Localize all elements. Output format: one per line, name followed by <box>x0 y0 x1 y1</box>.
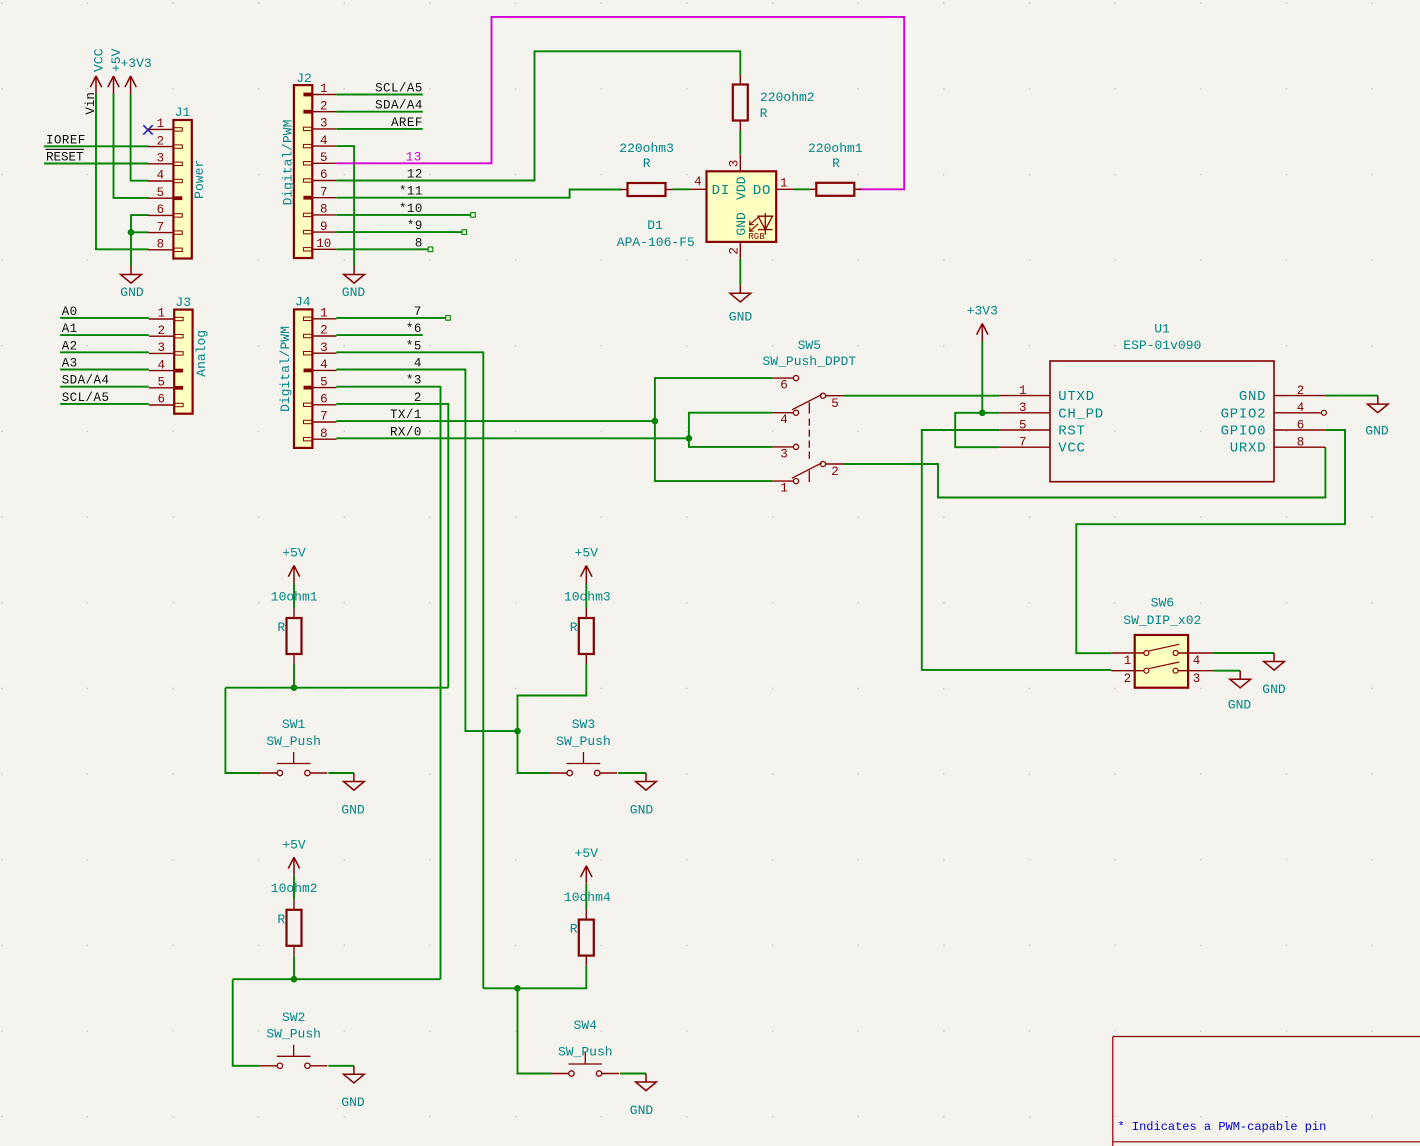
svg-text:R: R <box>760 106 768 121</box>
svg-text:3: 3 <box>727 160 741 168</box>
svg-text:3: 3 <box>780 447 788 461</box>
svg-text:SW1: SW1 <box>282 717 306 732</box>
wire +5V to 10ohm4 <box>585 884 587 910</box>
wire U1 GPIO0 to SW6 pin 1 <box>1076 430 1345 653</box>
net label TX/1 <box>390 408 422 422</box>
switch SW6 SW_DIP_x02 <box>1111 596 1213 688</box>
svg-text:SW3: SW3 <box>572 717 595 732</box>
no-connect X on J1 pin 1 <box>143 125 152 134</box>
svg-text:5: 5 <box>157 186 165 200</box>
svg-text:7: 7 <box>1019 436 1027 450</box>
wire 220ohm2 to D1 VDD <box>739 131 741 155</box>
resistor 220ohm1 <box>808 141 863 196</box>
net label *9 <box>407 219 423 233</box>
net label SDA/A4 <box>62 374 110 388</box>
wire net *11 J2 pin 7 to 220ohm3 <box>336 190 621 198</box>
wire D1 GND pin to ground <box>739 259 741 285</box>
svg-text:2: 2 <box>414 391 422 405</box>
svg-text:GND: GND <box>1239 389 1266 405</box>
svg-text:R: R <box>570 922 578 937</box>
svg-text:+3V3: +3V3 <box>120 56 151 71</box>
wire J2 pin 3 net AREF <box>336 128 423 130</box>
svg-text:Analog: Analog <box>194 330 209 377</box>
wire net 12 J2 pin 6 to 220ohm2 <box>336 51 740 180</box>
wire J4 pin 5 net *3 <box>336 387 440 980</box>
svg-text:3: 3 <box>157 152 165 166</box>
wire RESET to J1 pin 3 <box>44 163 149 165</box>
svg-text:VCC: VCC <box>91 48 106 72</box>
D1 internal LED symbol with RGB marking <box>748 213 772 242</box>
resistor 220ohm3 <box>619 141 674 196</box>
svg-text:GND: GND <box>341 802 365 817</box>
svg-text:6: 6 <box>157 203 165 217</box>
svg-text:IOREF: IOREF <box>46 133 86 147</box>
D1 pin name VDD (rotated) <box>734 176 749 200</box>
svg-text:SDA/A4: SDA/A4 <box>375 99 423 113</box>
net label *5 <box>406 339 422 353</box>
junction SW4 pull-up node <box>514 985 521 992</box>
svg-text:*10: *10 <box>399 202 423 216</box>
svg-text:R: R <box>277 912 285 927</box>
power flag +5V (SW4) <box>575 846 599 884</box>
svg-text:8: 8 <box>157 238 165 252</box>
svg-text:ESP-01v090: ESP-01v090 <box>1123 338 1201 353</box>
svg-text:SW_Push: SW_Push <box>558 1044 613 1059</box>
wire net *9 J2 pin 9 (dangling) <box>336 230 466 235</box>
switch SW2 SW_Push <box>260 1010 328 1069</box>
svg-text:SW4: SW4 <box>574 1018 598 1033</box>
net label RESET (with overline) <box>46 149 85 164</box>
svg-text:GND: GND <box>1365 424 1389 439</box>
svg-text:SCL/A5: SCL/A5 <box>62 391 110 405</box>
svg-text:RESET: RESET <box>46 151 84 165</box>
junction SW3 pull-up node <box>514 728 521 735</box>
note text: * Indicates a PWM-capable pin <box>1118 1120 1327 1134</box>
svg-text:SW_DIP_x02: SW_DIP_x02 <box>1123 613 1201 628</box>
wire J4 pin 8 net RX/0 to SW5 <box>336 437 689 439</box>
net label 7 <box>414 305 422 319</box>
net label 13 (magenta) <box>406 150 422 164</box>
D1 value label APA-106-F5 <box>617 235 695 250</box>
svg-text:2: 2 <box>1124 672 1132 686</box>
D1 pin number 3 <box>727 160 741 168</box>
wire J1 pin 6 to ground bus <box>131 215 149 266</box>
wire J4 pin 1 net 7 (dangling) <box>336 316 450 321</box>
net label *3 <box>406 374 422 388</box>
svg-text:J3: J3 <box>175 295 191 310</box>
svg-text:GND: GND <box>630 1103 654 1118</box>
svg-text:4: 4 <box>320 134 328 148</box>
resistor 10ohm3 <box>564 589 611 664</box>
svg-text:1: 1 <box>320 307 328 321</box>
wire J3 pin 5 net SDA/A4 <box>60 386 149 388</box>
wire U1 RST to SW6 pin 2 <box>922 430 1111 670</box>
net label *11 <box>399 185 423 199</box>
svg-text:GND: GND <box>342 285 366 300</box>
net label SCL/A5 <box>375 82 423 96</box>
svg-text:4: 4 <box>157 169 165 183</box>
ground at SW2 <box>341 1066 365 1110</box>
power flag +5V (SW1) <box>282 546 306 584</box>
svg-text:R: R <box>277 620 285 635</box>
wire U1 GND pin to ground <box>1325 395 1377 397</box>
svg-text:+5V: +5V <box>282 546 306 561</box>
switch SW4 SW_Push <box>552 1018 620 1076</box>
net label A1 <box>62 322 78 336</box>
svg-text:2: 2 <box>727 247 741 255</box>
wire SW5 pin 2 to U1 URXD <box>844 447 1326 497</box>
svg-text:1: 1 <box>780 482 788 496</box>
wire D1 DO to 220ohm1 <box>793 188 809 190</box>
svg-text:220ohm1: 220ohm1 <box>808 141 863 156</box>
switch SW1 SW_Push <box>260 717 328 776</box>
svg-text:GPIO2: GPIO2 <box>1221 406 1267 422</box>
svg-text:220ohm2: 220ohm2 <box>760 90 815 105</box>
svg-text:SW_Push: SW_Push <box>266 734 321 749</box>
junction J1 pins 6-7 ground <box>128 229 135 236</box>
svg-text:5: 5 <box>320 151 328 165</box>
svg-text:GND: GND <box>1262 682 1286 697</box>
svg-text:D1: D1 <box>647 218 663 233</box>
svg-text:+3V3: +3V3 <box>967 304 998 319</box>
wire CH_PD to VCC link <box>955 413 999 447</box>
svg-text:*5: *5 <box>406 339 422 353</box>
wire J4 pin 6 net 2 <box>336 404 448 688</box>
wire J4 pin 4 net 4 <box>336 370 515 732</box>
svg-text:13: 13 <box>406 150 422 164</box>
svg-text:*3: *3 <box>406 374 422 388</box>
svg-text:9: 9 <box>320 220 328 234</box>
svg-text:7: 7 <box>320 185 328 199</box>
power flag +3V3 <box>120 56 151 94</box>
svg-text:10ohm2: 10ohm2 <box>271 881 318 896</box>
svg-text:GND: GND <box>1228 698 1252 713</box>
wire SW1 to ground <box>328 772 354 774</box>
svg-text:RGB: RGB <box>748 232 765 242</box>
svg-text:GPIO0: GPIO0 <box>1221 424 1267 440</box>
svg-text:8: 8 <box>320 203 328 217</box>
svg-text:APA-106-F5: APA-106-F5 <box>617 235 695 250</box>
svg-text:GND: GND <box>734 212 749 236</box>
svg-text:8: 8 <box>415 236 423 250</box>
net label 12 <box>407 168 423 182</box>
wire +3V3 vertical to J1 pin 4 <box>131 94 149 181</box>
power flag +5V <box>108 48 124 94</box>
svg-text:*11: *11 <box>399 185 423 199</box>
svg-text:7: 7 <box>157 220 165 234</box>
svg-text:J4: J4 <box>295 294 311 309</box>
connector J2 (Digital/PWM header) <box>281 71 337 258</box>
net label 4 <box>414 357 422 371</box>
svg-text:6: 6 <box>780 379 788 393</box>
wire 10ohm3 to SW3 node <box>518 664 587 773</box>
wire J3 pin 1 net A0 <box>60 317 149 319</box>
wire net 8 J2 pin 10 (dangling) <box>336 247 433 252</box>
svg-text:SW5: SW5 <box>798 338 821 353</box>
wire net 13 (magenta) J2 pin 5 to 220ohm1 <box>336 17 904 189</box>
wire SW6 pin 3 to ground <box>1213 670 1240 672</box>
svg-text:SW_Push_DPDT: SW_Push_DPDT <box>762 354 856 369</box>
wire 10ohm1 to SW1 node <box>293 664 295 688</box>
svg-text:3: 3 <box>1193 672 1201 686</box>
svg-text:10ohm3: 10ohm3 <box>564 589 611 604</box>
resistor 220ohm2 <box>733 75 815 131</box>
svg-text:220ohm3: 220ohm3 <box>619 141 674 156</box>
svg-text:4: 4 <box>157 358 165 372</box>
svg-text:5: 5 <box>1019 418 1027 432</box>
power flag +5V (SW2) <box>282 837 306 875</box>
wire SW3 to ground <box>618 772 646 774</box>
wire +5V to 10ohm2 <box>293 875 295 900</box>
svg-text:10: 10 <box>316 237 331 251</box>
svg-text:GND: GND <box>120 285 144 300</box>
resistor 10ohm2 <box>271 881 318 956</box>
net label RX/0 <box>390 425 422 439</box>
svg-text:5: 5 <box>320 375 328 389</box>
svg-text:AREF: AREF <box>391 116 423 130</box>
svg-text:+5V: +5V <box>575 546 599 561</box>
svg-text:4: 4 <box>1297 401 1305 415</box>
wire SW6 pin 4 to ground <box>1213 652 1274 654</box>
svg-text:2: 2 <box>320 99 328 113</box>
switch SW5 SW_Push_DPDT <box>762 338 856 484</box>
junction +3V3 CH_PD <box>979 410 986 417</box>
wire +5V vertical to J1 pin 5 <box>114 94 149 198</box>
wire J4 pin 2 net *6 <box>336 334 423 336</box>
wire SW1 node down to SW1 pin <box>225 688 260 773</box>
svg-text:10ohm4: 10ohm4 <box>564 890 611 905</box>
svg-text:1: 1 <box>780 177 788 191</box>
wire net *5 to SW4 node <box>483 987 517 989</box>
wire J2 pin 2 net SDA/A4 <box>336 111 423 113</box>
svg-text:J1: J1 <box>175 105 191 120</box>
wire IOREF to J1 pin 2 <box>44 145 149 147</box>
D1 reference label <box>647 218 663 233</box>
ground at SW4 <box>630 1074 657 1118</box>
svg-text:3: 3 <box>1019 401 1027 415</box>
svg-text:URXD: URXD <box>1230 441 1266 457</box>
svg-text:3: 3 <box>320 117 328 131</box>
wire SW2 node to net *3 <box>233 978 441 980</box>
svg-text:1: 1 <box>1019 384 1027 398</box>
svg-text:SW_Push: SW_Push <box>556 734 611 749</box>
svg-text:UTXD: UTXD <box>1058 389 1094 405</box>
wire J3 pin 6 net SCL/A5 <box>60 403 149 405</box>
wire VCC vertical to J1 pin 8 <box>96 94 149 249</box>
wire SW2 to ground <box>328 1065 354 1067</box>
svg-text:5: 5 <box>831 397 839 411</box>
svg-text:6: 6 <box>320 393 328 407</box>
svg-text:10ohm1: 10ohm1 <box>271 589 318 604</box>
ground at SW6 pin 4 <box>1262 653 1286 697</box>
wire 10ohm4 to SW4 node <box>518 966 587 1074</box>
net label *10 <box>399 202 423 216</box>
svg-text:GND: GND <box>341 1095 365 1110</box>
wire J4 pin 7 net TX/1 to SW5 <box>336 420 655 422</box>
svg-text:1: 1 <box>1124 654 1132 668</box>
SW5 pin numbers <box>780 379 839 496</box>
svg-text:4: 4 <box>694 175 702 189</box>
wire 220ohm3 to D1 DI <box>673 188 690 190</box>
power flag VCC <box>90 48 106 94</box>
wire SW5 pin 6 to pin 1 (left loop) <box>655 378 773 481</box>
svg-text:DI: DI <box>712 183 730 199</box>
wire SW5 pin 5 to U1 UTXD <box>844 395 999 397</box>
svg-text:4: 4 <box>780 413 788 427</box>
wire +5V to 10ohm3 <box>585 584 587 609</box>
svg-text:GND: GND <box>630 802 654 817</box>
power flag +5V (SW3) <box>575 546 599 584</box>
net label SDA/A4 <box>375 99 423 113</box>
D1 pin name DI <box>712 183 730 199</box>
svg-text:*9: *9 <box>407 219 423 233</box>
svg-text:8: 8 <box>1297 436 1305 450</box>
svg-text:Digital/PWM: Digital/PWM <box>281 120 296 206</box>
svg-text:2: 2 <box>320 324 328 338</box>
svg-text:4: 4 <box>320 358 328 372</box>
resistor 10ohm4 <box>564 890 611 966</box>
D1 pin number 2 <box>727 247 741 255</box>
svg-text:*6: *6 <box>406 322 422 336</box>
svg-text:+5V: +5V <box>575 846 599 861</box>
svg-text:SCL/A5: SCL/A5 <box>375 82 423 96</box>
junction SW2 pull-up node <box>291 976 298 983</box>
svg-text:VCC: VCC <box>1058 441 1085 457</box>
svg-text:2: 2 <box>1297 384 1305 398</box>
svg-text:U1: U1 <box>1154 322 1170 337</box>
RGB LED D1 APA-106-F5 <box>689 154 793 259</box>
connector J1 (Power header) <box>148 105 207 259</box>
wire SW4 to ground <box>620 1073 646 1075</box>
switch SW3 SW_Push <box>550 717 618 776</box>
svg-text:RST: RST <box>1058 424 1085 440</box>
resistor 10ohm1 <box>271 589 318 664</box>
wire net *10 J2 pin 8 (dangling) <box>336 213 475 218</box>
svg-text:7: 7 <box>414 305 422 319</box>
net label *6 <box>406 322 422 336</box>
wire SW5 pin 4 to pin 3 <box>689 413 773 447</box>
ground below J1 <box>120 266 144 300</box>
connector J4 (Digital/PWM header) <box>278 294 336 448</box>
svg-text:Power: Power <box>192 160 207 199</box>
junction SW1 pull-up node <box>291 684 298 691</box>
net label A2 <box>62 339 78 353</box>
svg-text:VDD: VDD <box>734 176 749 200</box>
svg-text:* Indicates a PWM-capable pin: * Indicates a PWM-capable pin <box>1118 1120 1327 1134</box>
svg-text:Digital/PWM: Digital/PWM <box>278 326 293 412</box>
net label AREF <box>391 116 423 130</box>
wire SW1 node to net 2 <box>225 687 448 689</box>
junction TX/1 at SW5 left loop <box>652 418 659 425</box>
svg-text:A1: A1 <box>62 322 78 336</box>
ground at SW6 pin 3 <box>1228 671 1252 713</box>
ground at SW1 <box>341 773 365 817</box>
wire J2 pin 4 to ground <box>336 146 354 266</box>
net label A3 <box>62 357 78 371</box>
svg-text:A2: A2 <box>62 339 78 353</box>
module U1 ESP-01v090 <box>999 322 1326 482</box>
svg-text:3: 3 <box>320 341 328 355</box>
svg-text:1: 1 <box>320 82 328 96</box>
svg-text:7: 7 <box>320 410 328 424</box>
ground at U1 pin 2 <box>1365 396 1389 439</box>
svg-text:2: 2 <box>831 465 839 479</box>
svg-text:2: 2 <box>157 324 165 338</box>
svg-text:+5V: +5V <box>282 837 306 852</box>
net label 8 <box>415 236 423 250</box>
wire 10ohm2 to SW2 node <box>293 956 295 979</box>
svg-text:RX/0: RX/0 <box>390 425 422 439</box>
connector J3 (Analog header) <box>149 295 209 414</box>
D1 pin name DO <box>753 183 771 199</box>
svg-text:4: 4 <box>1193 654 1201 668</box>
ground below J2 <box>342 266 366 300</box>
wire J3 pin 4 net A3 <box>60 369 149 371</box>
ground at SW3 <box>630 773 657 817</box>
svg-text:J2: J2 <box>296 71 312 86</box>
power flag +3V3 (at U1) <box>967 304 998 342</box>
svg-text:CH_PD: CH_PD <box>1058 406 1104 422</box>
wire J1 pin 7 to junction <box>131 231 149 233</box>
net label IOREF <box>46 133 86 147</box>
svg-text:5: 5 <box>157 376 165 390</box>
svg-text:6: 6 <box>1297 418 1305 432</box>
D1 pin number 4 <box>694 175 702 189</box>
svg-text:1: 1 <box>157 307 165 321</box>
D1 pin name GND (rotated) <box>734 212 749 236</box>
svg-text:6: 6 <box>157 393 165 407</box>
svg-text:SDA/A4: SDA/A4 <box>62 374 110 388</box>
svg-text:8: 8 <box>320 427 328 441</box>
svg-text:4: 4 <box>414 357 422 371</box>
svg-text:R: R <box>570 620 578 635</box>
wire J2 pin 1 net SCL/A5 <box>336 94 423 96</box>
wire J3 pin 2 net A1 <box>60 334 149 336</box>
net label A0 <box>62 305 78 319</box>
wire +3V3 to U1 CH_PD <box>981 342 983 413</box>
svg-text:SW2: SW2 <box>282 1010 305 1025</box>
net label 2 <box>414 391 422 405</box>
ground below D1 <box>729 285 753 325</box>
svg-text:SW_Push: SW_Push <box>266 1027 321 1042</box>
svg-text:A3: A3 <box>62 357 78 371</box>
junction RX/0 at SW5 pole <box>686 435 693 442</box>
net label SCL/A5 <box>62 391 110 405</box>
svg-text:A0: A0 <box>62 305 78 319</box>
D1 pin number 1 <box>780 177 788 191</box>
svg-text:3: 3 <box>157 341 165 355</box>
svg-text:GND: GND <box>729 310 753 325</box>
wire J3 pin 3 net A2 <box>60 351 149 353</box>
wire SW2 node down to SW2 pin <box>233 979 260 1066</box>
wire +5V to 10ohm1 <box>293 584 295 609</box>
svg-text:R: R <box>643 156 651 171</box>
svg-text:1: 1 <box>157 117 165 131</box>
svg-text:TX/1: TX/1 <box>390 408 422 422</box>
text frame border (note box) <box>1113 1037 1420 1146</box>
wire J4 pin 3 net *5 <box>336 352 483 988</box>
svg-text:DO: DO <box>753 183 771 199</box>
net label Vin <box>84 92 98 115</box>
svg-text:SW6: SW6 <box>1151 596 1174 611</box>
svg-text:12: 12 <box>407 168 423 182</box>
svg-text:R: R <box>832 156 840 171</box>
svg-text:6: 6 <box>320 168 328 182</box>
svg-text:2: 2 <box>157 134 165 148</box>
